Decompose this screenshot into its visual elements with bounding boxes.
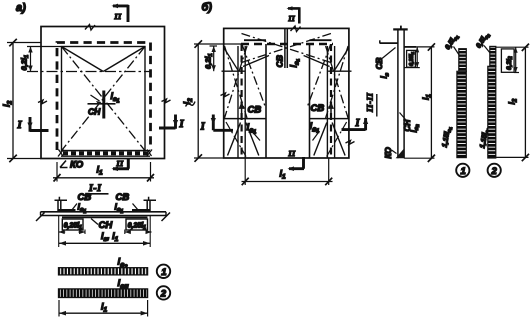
centre anchor bar fig b bbox=[285, 28, 287, 68]
dimension l1 fig b bbox=[244, 159, 246, 186]
svg-text:1: 1 bbox=[161, 267, 166, 278]
anchor left section I-I bbox=[55, 197, 68, 212]
svg-text:l1: l1 bbox=[97, 165, 104, 177]
svg-text:lв, l1: lв, l1 bbox=[101, 231, 119, 243]
svg-text:0,25l1: 0,25l1 bbox=[409, 51, 415, 66]
line 0,2l1 level fig a bbox=[27, 71, 150, 73]
svg-text:СН: СН bbox=[88, 107, 101, 117]
inner solid square bbox=[62, 47, 146, 151]
break tick left edge fig a bbox=[38, 100, 47, 104]
solid brace right pier bbox=[314, 123, 345, 156]
svg-text:I: I bbox=[355, 118, 361, 129]
svg-text:l1: l1 bbox=[101, 302, 108, 314]
anchor right section I-I bbox=[144, 197, 157, 212]
dimension line section I-I bbox=[58, 216, 60, 247]
svg-text:I: I bbox=[200, 121, 206, 132]
svg-text:II-II: II-II bbox=[364, 92, 374, 113]
solid diagonal right to centre bbox=[103, 47, 145, 72]
svg-text:2: 2 bbox=[160, 288, 167, 299]
bar left section II-II bbox=[380, 42, 398, 44]
svg-text:lв: lв bbox=[380, 72, 391, 78]
embedded plate dashed square bbox=[57, 43, 151, 151]
svg-text:СВ: СВ bbox=[311, 103, 325, 114]
weld bar top right bbox=[132, 209, 150, 212]
svg-text:СВ: СВ bbox=[374, 58, 384, 70]
weld strip bottom fig a bbox=[61, 150, 150, 152]
dashed line lintel fig b bbox=[241, 43, 333, 46]
dimension l2 fig a left bbox=[12, 43, 14, 159]
svg-text:II: II bbox=[116, 159, 125, 168]
framed dim 0,25l1 right bbox=[126, 219, 148, 230]
break squiggle right of fig a bbox=[186, 102, 196, 107]
dimension 0,2l1 fig b bbox=[213, 46, 215, 71]
right pier dashed axis bbox=[330, 44, 332, 158]
opening left edge bbox=[265, 44, 267, 158]
dash-dot diagonal TR-BL bbox=[62, 47, 146, 151]
panel outline fig a bbox=[41, 27, 165, 159]
opening right edge bbox=[309, 44, 311, 158]
dimension 0,2l1 fig a bbox=[30, 47, 32, 72]
break tick right edge fig a bbox=[162, 99, 171, 103]
bar 2 main segment bbox=[488, 66, 496, 158]
circle mark 1 bbox=[157, 265, 170, 278]
section flag II top fig b bbox=[288, 7, 300, 23]
svg-text:СН: СН bbox=[403, 119, 412, 132]
solid diagonal left to centre bbox=[62, 47, 104, 72]
dimension l1 bars bbox=[58, 300, 60, 317]
solid arm left lintel bbox=[243, 56, 269, 67]
section flag II top fig a bbox=[113, 5, 129, 22]
bar 1 main segment bbox=[457, 71, 466, 157]
arrows under right box bbox=[125, 231, 152, 233]
plate in section I-I bbox=[41, 211, 167, 213]
anchor bar CH centre vertical bbox=[102, 91, 105, 119]
lintel bar solid left bbox=[244, 39, 266, 41]
dash-dot diag lower left pier bbox=[226, 122, 246, 157]
leader arrow to centre bbox=[91, 95, 100, 101]
break tick right edge fig b bbox=[346, 141, 355, 145]
leader CB right bbox=[133, 204, 139, 211]
svg-text:l1: l1 bbox=[280, 169, 287, 181]
section flag II bottom fig b bbox=[289, 157, 304, 169]
svg-text:СВ: СВ bbox=[248, 105, 262, 116]
left pier dashed axis bbox=[241, 44, 243, 158]
dash-dot X left pier bbox=[225, 45, 266, 119]
svg-text:I: I bbox=[179, 119, 185, 130]
svg-text:СВ: СВ bbox=[275, 55, 285, 67]
framed dim 0,2l2 bars bbox=[501, 49, 514, 72]
solid brace left pier bbox=[228, 123, 259, 156]
anchor T top section II-II bbox=[393, 28, 408, 30]
framed dim 0,25l1 section II-II bbox=[407, 50, 416, 67]
weld KO wedge bbox=[396, 149, 404, 159]
break tick left edge fig b bbox=[221, 93, 230, 97]
svg-text:lв1: lв1 bbox=[288, 58, 300, 67]
solid arm right lintel bbox=[304, 56, 330, 67]
break tick top edge fig b bbox=[291, 26, 301, 32]
centre horizontal stroke bbox=[88, 103, 116, 105]
svg-text:1,15lв1: 1,15lв1 bbox=[442, 125, 454, 148]
svg-text:0,2l2: 0,2l2 bbox=[506, 56, 514, 70]
svg-text:l2: l2 bbox=[182, 98, 194, 105]
reinforcement bar 2 bbox=[59, 289, 148, 298]
leader CB left bbox=[72, 204, 78, 211]
dash-dot diag lower right pier bbox=[327, 122, 347, 157]
bar CH under plate bbox=[62, 216, 148, 218]
framed dim 0,25l1 left bbox=[62, 219, 83, 230]
lintel bar solid right bbox=[310, 39, 332, 41]
circle mark 1 bars bbox=[456, 164, 469, 177]
dash-dot X lintel bbox=[242, 34, 332, 63]
svg-text:lв1: lв1 bbox=[115, 202, 124, 216]
svg-text:КО: КО bbox=[384, 147, 393, 159]
level line 0,2l1 left bbox=[222, 70, 245, 72]
level line right bbox=[328, 70, 351, 72]
bar right section II-II bbox=[404, 46, 416, 48]
svg-text:l2: l2 bbox=[2, 100, 14, 107]
svg-text:II: II bbox=[288, 15, 296, 23]
right pier verticals bbox=[327, 46, 334, 158]
x tick strip right end bbox=[147, 150, 153, 157]
section flag II bottom fig a bbox=[113, 159, 129, 169]
svg-text:l2: l2 bbox=[507, 98, 519, 104]
svg-text:II: II bbox=[288, 149, 297, 158]
weld arrow right pier bbox=[330, 106, 332, 118]
panel outline fig b bbox=[224, 28, 349, 158]
x tick strip left end bbox=[58, 150, 64, 157]
pier horizontal line right bbox=[310, 118, 349, 120]
svg-text:II: II bbox=[114, 12, 123, 21]
arrows under left box bbox=[59, 231, 85, 233]
circle mark 2 bbox=[157, 286, 170, 299]
svg-text:а): а) bbox=[16, 2, 26, 14]
svg-text:б): б) bbox=[202, 2, 213, 14]
break tick top edge fig a bbox=[85, 25, 95, 31]
weld bar top left bbox=[58, 209, 76, 212]
svg-text:lв1: lв1 bbox=[247, 122, 257, 136]
dimension l2 fig b bbox=[197, 44, 199, 158]
dimension l1 fig a bbox=[56, 162, 58, 182]
dimension l2 bars bbox=[496, 46, 529, 48]
dash-dot X right pier bbox=[308, 45, 349, 119]
svg-text:1: 1 bbox=[461, 166, 466, 177]
svg-text:I: I bbox=[17, 120, 23, 131]
circle mark 2 bars bbox=[488, 164, 501, 177]
break tick plate right end bbox=[162, 213, 171, 222]
svg-text:lв1: lв1 bbox=[78, 202, 87, 216]
svg-text:0,2l1: 0,2l1 bbox=[203, 53, 214, 69]
break tick plate left end bbox=[36, 213, 45, 222]
bar 1 top segment bbox=[459, 49, 467, 72]
label angle KO bbox=[60, 161, 68, 168]
bar 2 top segment bbox=[490, 46, 496, 66]
left pier verticals bbox=[238, 46, 245, 158]
pier horizontal line left bbox=[224, 118, 266, 120]
svg-text:СН: СН bbox=[99, 220, 114, 231]
plate section II-II bbox=[398, 29, 404, 159]
dimension l1 section II-II bbox=[404, 46, 434, 48]
weld arrow left pier bbox=[241, 106, 243, 118]
svg-text:СВ: СВ bbox=[116, 192, 130, 203]
svg-text:0,2l1: 0,2l1 bbox=[20, 55, 31, 71]
dash-dot diagonal TL-BR bbox=[62, 47, 146, 151]
svg-text:КО: КО bbox=[70, 160, 84, 171]
svg-text:lв1: lв1 bbox=[111, 91, 120, 105]
svg-text:2: 2 bbox=[491, 166, 498, 177]
reinforcement bar 1 bbox=[59, 268, 148, 275]
